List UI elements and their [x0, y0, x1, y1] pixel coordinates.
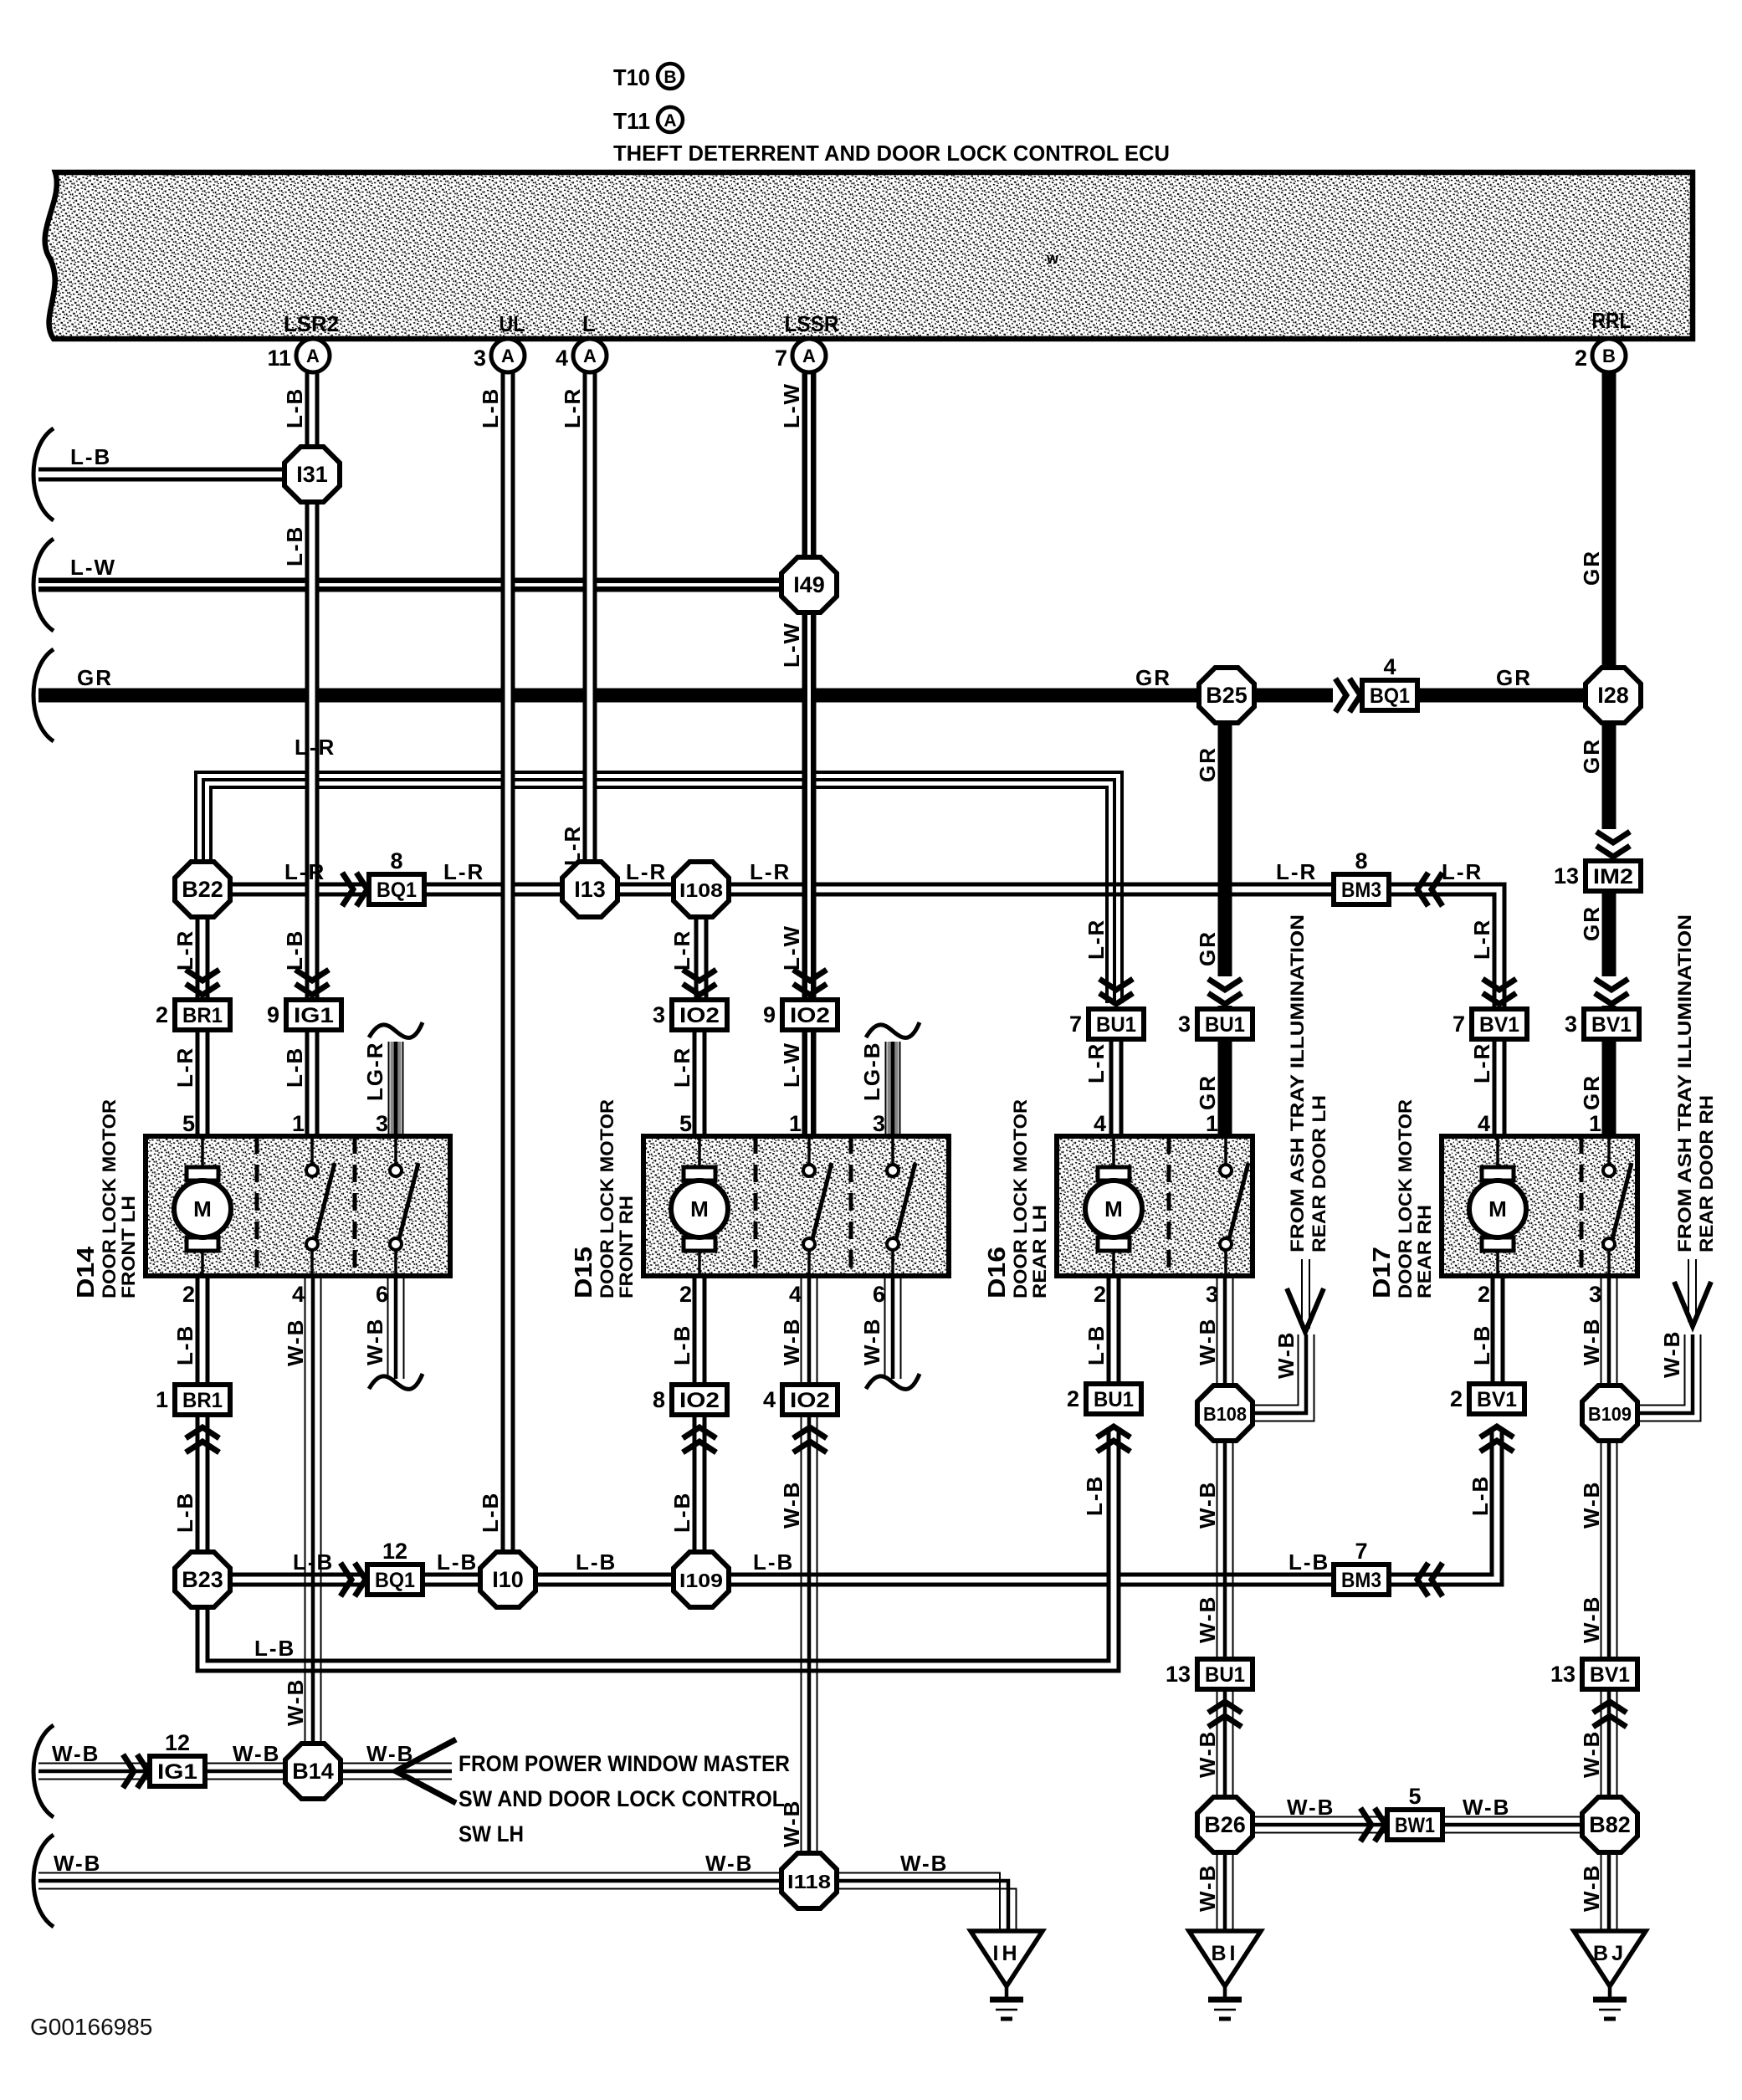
motor D15 [684, 1167, 715, 1181]
component D14 DOOR LOCK MOTOR FRONT LH [146, 1136, 450, 1276]
ground BJ [1574, 1931, 1646, 1986]
wire L-R B22 to BR1 [196, 916, 210, 1001]
svg-text:BV1: BV1 [1479, 1013, 1519, 1037]
splice I109 [674, 1552, 729, 1607]
svg-text:2: 2 [182, 1282, 195, 1307]
svg-text:BQ1: BQ1 [375, 1569, 415, 1592]
svg-text:LSSR: LSSR [785, 311, 839, 336]
svg-text:BQ1: BQ1 [377, 878, 417, 902]
connector IO2 pin3 [672, 1000, 727, 1030]
svg-text:B108: B108 [1203, 1403, 1247, 1425]
switch D15 sw1 [803, 1165, 815, 1176]
svg-text:2: 2 [679, 1282, 692, 1307]
arrow down [186, 970, 219, 981]
splice I108 [674, 862, 729, 917]
svg-text:9: 9 [267, 1002, 279, 1027]
svg-text:IG1: IG1 [157, 1760, 197, 1784]
splice B109 [1582, 1385, 1637, 1441]
svg-text:T10: T10 [613, 64, 650, 90]
connector IO2 pin9 [782, 1000, 838, 1030]
svg-text:LG-B: LG-B [859, 1041, 884, 1101]
wire GR B25 to BU1 [1218, 722, 1232, 1010]
svg-text:GR: GR [1195, 930, 1220, 966]
svg-text:B109: B109 [1588, 1403, 1632, 1425]
arrow down [683, 970, 716, 981]
svg-text:2: 2 [156, 1002, 168, 1027]
svg-text:W-B: W-B [1195, 1864, 1220, 1912]
svg-text:L-B: L-B [1082, 1475, 1107, 1516]
svg-text:A: A [501, 346, 515, 366]
svg-text:A: A [583, 346, 597, 366]
wire W-B B108 to ash tray merge [1253, 1334, 1314, 1421]
svg-text:GR: GR [1195, 746, 1220, 782]
wire W-B I118 to IH ground [837, 1873, 1017, 1930]
wire L-B loop B23 to BU1 [202, 1427, 1114, 1666]
svg-text:G00166985: G00166985 [30, 2014, 152, 2040]
svg-text:BW1: BW1 [1395, 1814, 1435, 1837]
svg-text:L-R: L-R [172, 930, 197, 971]
svg-text:B14: B14 [292, 1759, 334, 1784]
connector BU1 pin7 [1089, 1009, 1144, 1039]
svg-text:L-B: L-B [437, 1549, 478, 1575]
wire break squiggle [369, 1374, 423, 1389]
splice B22 [175, 862, 230, 917]
connector break arc [33, 539, 54, 631]
svg-text:BR1: BR1 [182, 1389, 223, 1412]
wire L-R BV1 to D17 pin4 [1493, 1038, 1507, 1136]
wire L-R row B22-BQ1-I13-I108-BM3 to BV1 [230, 889, 1499, 1009]
svg-text:I13: I13 [574, 877, 606, 902]
svg-text:L-B: L-B [1468, 1475, 1493, 1516]
svg-text:L-R: L-R [669, 930, 694, 971]
svg-text:W-B: W-B [779, 1481, 804, 1529]
ground BI [1189, 1931, 1261, 1986]
arrow right [341, 1563, 351, 1596]
wire W-B IO2 to I118 [801, 1414, 802, 1854]
wire L-B D17 pin2 to BV1 [1491, 1276, 1505, 1385]
svg-text:B22: B22 [182, 877, 223, 902]
svg-text:7: 7 [1069, 1012, 1082, 1037]
svg-text:3: 3 [1206, 1282, 1218, 1307]
wire L-B D14 pin2 to BR1 [196, 1276, 210, 1385]
connector BW1 pin5 [1387, 1810, 1442, 1840]
wire W-B B82 to BJ ground [1601, 1852, 1602, 1930]
svg-text:LSR2: LSR2 [284, 311, 339, 336]
wire W-B D17 pin3 to B109 [1601, 1276, 1602, 1386]
svg-text:IO2: IO2 [790, 1004, 830, 1027]
svg-text:1: 1 [292, 1111, 305, 1136]
svg-text:1: 1 [156, 1387, 168, 1412]
wire L-R IO2 to D15 pin5 [693, 1029, 707, 1136]
connector BU1 pin3 [1197, 1009, 1253, 1039]
svg-text:IO2: IO2 [679, 1004, 720, 1027]
arrow up [683, 1427, 716, 1438]
wire L-B IG1 to D14 pin1 [305, 1029, 320, 1136]
connector BV1 pin13 [1582, 1659, 1637, 1689]
svg-text:GR: GR [1579, 550, 1604, 586]
arrow down [1483, 979, 1516, 990]
arrow up [793, 1427, 827, 1438]
svg-text:IG1: IG1 [294, 1004, 334, 1027]
svg-text:REAR LH: REAR LH [1029, 1205, 1050, 1298]
svg-text:W-B: W-B [366, 1741, 414, 1766]
wire L-B D15 pin2 to IO2 [693, 1276, 707, 1385]
wire W-B BV1-13 to B82 [1601, 1688, 1602, 1798]
arrow left [1417, 873, 1428, 906]
component D17 DOOR LOCK MOTOR REAR RH [1442, 1136, 1637, 1276]
arrow up [1208, 1702, 1242, 1713]
splice B25 [1199, 668, 1254, 723]
svg-text:FRONT RH: FRONT RH [616, 1196, 637, 1298]
svg-text:L-W: L-W [779, 622, 804, 668]
switch D14 sw2 [390, 1165, 402, 1176]
svg-text:FROM ASH TRAY ILLUMINATION: FROM ASH TRAY ILLUMINATION [1287, 914, 1308, 1252]
wire GR pin2B RRL to I28 [1602, 372, 1616, 668]
svg-text:BV1: BV1 [1477, 1388, 1517, 1411]
wire W-B B14 to merge [341, 1763, 452, 1765]
svg-text:W-B: W-B [283, 1319, 308, 1366]
svg-text:M: M [1104, 1196, 1123, 1222]
switch D16 sw [1220, 1165, 1232, 1176]
svg-text:8: 8 [653, 1387, 665, 1412]
svg-text:A: A [663, 111, 676, 131]
connector break arc [33, 1725, 54, 1817]
wire GR I28 to IM2 [1602, 722, 1616, 863]
svg-text:L-R: L-R [1442, 859, 1483, 884]
svg-text:L-B: L-B [282, 1047, 307, 1088]
connector BQ1 pin4 [1362, 680, 1417, 710]
pin 4 A [573, 339, 607, 372]
component D15 DOOR LOCK MOTOR FRONT RH [643, 1136, 949, 1276]
svg-text:I109: I109 [679, 1570, 723, 1591]
svg-text:B82: B82 [1589, 1812, 1631, 1837]
svg-text:1: 1 [789, 1111, 802, 1136]
arrow up [1097, 1426, 1130, 1437]
svg-text:UL: UL [500, 311, 525, 336]
svg-text:12: 12 [165, 1730, 190, 1755]
svg-text:5: 5 [679, 1111, 692, 1136]
svg-text:4: 4 [1383, 654, 1396, 679]
svg-text:L-B: L-B [669, 1324, 694, 1365]
svg-text:W-B: W-B [283, 1678, 308, 1726]
svg-text:8: 8 [390, 848, 402, 873]
svg-text:3: 3 [376, 1111, 388, 1136]
svg-text:L-R: L-R [750, 859, 791, 884]
arrow up [186, 1427, 219, 1438]
svg-text:GR: GR [1579, 738, 1604, 774]
wire L-B BR1 to B23 [196, 1414, 210, 1553]
svg-text:SW AND DOOR LOCK CONTROL: SW AND DOOR LOCK CONTROL [459, 1786, 785, 1811]
wire break squiggle [866, 1374, 920, 1389]
svg-text:L-B: L-B [254, 1636, 295, 1661]
wire LG-R to D14 pin3 [388, 1042, 404, 1136]
svg-text:THEFT DETERRENT AND DOOR LOCK: THEFT DETERRENT AND DOOR LOCK CONTROL EC… [613, 141, 1170, 166]
svg-text:L-W: L-W [779, 382, 804, 428]
splice B26 [1197, 1797, 1253, 1852]
svg-text:L-R: L-R [560, 387, 585, 428]
svg-text:L-R: L-R [284, 859, 325, 884]
svg-text:W-B: W-B [1195, 1481, 1220, 1529]
svg-text:D14: D14 [73, 1247, 100, 1298]
svg-text:4: 4 [789, 1282, 802, 1307]
svg-text:2: 2 [1067, 1386, 1079, 1411]
connector IO2 pin8 [672, 1385, 727, 1415]
svg-text:BM3: BM3 [1341, 878, 1381, 902]
svg-text:W-B: W-B [705, 1851, 753, 1876]
svg-text:W-B: W-B [1659, 1330, 1684, 1378]
connector BV1 pin3 [1584, 1009, 1639, 1039]
svg-text:W-B: W-B [1195, 1730, 1220, 1778]
wire GR IM2 to BV1 [1602, 889, 1616, 1010]
svg-text:4: 4 [1478, 1111, 1490, 1136]
svg-text:GR: GR [1135, 665, 1171, 690]
svg-text:GR: GR [1496, 665, 1532, 690]
wire L-R BR1 to D14 pin5 [196, 1029, 210, 1136]
svg-text:I10: I10 [492, 1567, 524, 1592]
svg-text:L-R: L-R [1469, 1042, 1494, 1083]
svg-text:IO2: IO2 [790, 1389, 830, 1412]
wire L-R bus B22 to D16 pin4 (triple line) [196, 772, 1122, 1003]
arrow right [342, 873, 353, 906]
svg-text:W-B: W-B [1579, 1595, 1604, 1643]
splice I28 [1586, 668, 1641, 723]
wire break squiggle [369, 1022, 423, 1037]
svg-text:REAR DOOR RH: REAR DOOR RH [1696, 1095, 1717, 1252]
svg-text:3: 3 [1178, 1012, 1191, 1037]
svg-text:L-B: L-B [1084, 1324, 1109, 1365]
svg-text:REAR DOOR LH: REAR DOOR LH [1309, 1095, 1330, 1252]
wire W-B B108 to BU1-13 [1217, 1440, 1218, 1660]
svg-text:6: 6 [873, 1282, 885, 1307]
svg-text:BU1: BU1 [1094, 1388, 1134, 1411]
svg-text:9: 9 [763, 1002, 776, 1027]
svg-text:L-R: L-R [443, 859, 484, 884]
svg-text:8: 8 [1355, 848, 1367, 873]
svg-text:GR: GR [77, 665, 113, 690]
splice B108 [1197, 1385, 1253, 1441]
svg-text:W-B: W-B [233, 1741, 280, 1766]
arrow up [1593, 1702, 1627, 1713]
svg-text:L-R: L-R [669, 1047, 694, 1088]
wire L-R BU1 to D16 pin4 [1109, 1038, 1124, 1136]
svg-text:RRL: RRL [1592, 308, 1632, 333]
svg-text:IH: IH [993, 1942, 1021, 1965]
arrow right [1360, 1808, 1371, 1841]
svg-text:13: 13 [1166, 1662, 1191, 1687]
svg-text:FRONT LH: FRONT LH [118, 1196, 139, 1298]
wire L-B row B23-BQ1-I10-I109-BM3 to BV1 [230, 1427, 1497, 1580]
svg-text:3: 3 [1589, 1282, 1601, 1307]
arrow right [123, 1754, 134, 1788]
wire W-B B26 to BI ground [1217, 1852, 1218, 1930]
pin 7 A [792, 339, 826, 372]
svg-text:I118: I118 [787, 1871, 831, 1893]
connector IG1 pin9 [286, 1000, 341, 1030]
connector BM3 pin8 [1334, 874, 1389, 904]
wire LG-B to D15 pin3 [885, 1042, 901, 1136]
svg-text:W-B: W-B [1195, 1595, 1220, 1643]
svg-text:2: 2 [1094, 1282, 1106, 1307]
svg-text:L-R: L-R [1276, 859, 1317, 884]
svg-text:A: A [306, 346, 320, 366]
svg-text:IO2: IO2 [679, 1389, 720, 1412]
svg-text:L-B: L-B [478, 387, 503, 428]
svg-text:W-B: W-B [1579, 1864, 1604, 1912]
connector IO2 pin4 [782, 1385, 838, 1415]
svg-text:w: w [1046, 250, 1059, 267]
svg-text:BM3: BM3 [1341, 1569, 1381, 1592]
splice I13 [562, 862, 617, 917]
connector BU1 pin2 [1086, 1384, 1141, 1414]
svg-text:7: 7 [775, 346, 787, 371]
svg-text:W-B: W-B [54, 1851, 101, 1876]
wire L-B pin3A UL to I10 [501, 372, 515, 1553]
svg-text:L-R: L-R [626, 859, 667, 884]
svg-text:GR: GR [1579, 905, 1604, 941]
svg-text:IM2: IM2 [1593, 865, 1633, 889]
svg-text:W-B: W-B [1195, 1318, 1220, 1365]
svg-text:B26: B26 [1204, 1812, 1246, 1837]
svg-text:13: 13 [1554, 863, 1579, 889]
svg-text:BV1: BV1 [1591, 1013, 1632, 1037]
svg-text:D17: D17 [1369, 1247, 1396, 1298]
svg-text:W-B: W-B [779, 1318, 804, 1365]
connector break arc [33, 649, 54, 741]
svg-text:A: A [802, 346, 816, 366]
svg-text:W-B: W-B [1579, 1318, 1604, 1365]
svg-text:L-B: L-B [70, 444, 111, 469]
wire L-W to I49 [38, 578, 781, 592]
svg-text:W-B: W-B [859, 1318, 884, 1365]
svg-text:2: 2 [1575, 346, 1587, 371]
wire W-B B109 to BV1-13 [1601, 1440, 1602, 1660]
wire L-R pin4A L to I13 [583, 372, 597, 863]
svg-text:12: 12 [382, 1539, 407, 1564]
arrow down [1595, 829, 1632, 858]
motor D17 [1482, 1167, 1514, 1181]
wire L-W pin7A LSSR through I49 to IO2 [802, 372, 817, 1001]
svg-text:L-R: L-R [560, 825, 585, 866]
svg-text:W-B: W-B [362, 1318, 387, 1365]
svg-text:L-B: L-B [576, 1549, 617, 1575]
svg-text:DOOR LOCK MOTOR: DOOR LOCK MOTOR [1395, 1099, 1416, 1298]
svg-text:4: 4 [556, 346, 568, 371]
svg-text:I108: I108 [679, 879, 723, 901]
svg-text:I28: I28 [1597, 683, 1629, 708]
wire W-B B109 to ash tray merge [1637, 1334, 1701, 1421]
wire L-B D16 pin2 to BU1 [1107, 1276, 1121, 1385]
svg-text:GR: GR [1195, 1074, 1220, 1110]
svg-text:L-B: L-B [753, 1549, 794, 1575]
svg-text:W-B: W-B [1579, 1730, 1604, 1778]
connector BV1 pin2 [1469, 1384, 1524, 1414]
svg-text:GR: GR [1579, 1074, 1604, 1110]
svg-text:3: 3 [653, 1002, 665, 1027]
splice I49 [781, 557, 837, 612]
connector break arc [33, 1835, 54, 1927]
wire L-R I108 to IO2 [694, 916, 709, 1001]
svg-text:L-R: L-R [295, 735, 336, 760]
svg-text:B25: B25 [1206, 683, 1248, 708]
merge arrow ash tray RH [1674, 1282, 1711, 1326]
wire W-B D16 pin3 to B108 [1217, 1276, 1218, 1386]
wire W-B BW1 to B82 [1442, 1816, 1582, 1818]
ECU block: THEFT DETERRENT AND DOOR LOCK CONTROL ECU [45, 172, 1693, 339]
wire W-B D15 pin4 to IO2 [801, 1276, 802, 1385]
component D16 DOOR LOCK MOTOR REAR LH [1057, 1136, 1253, 1276]
svg-text:FROM ASH TRAY ILLUMINATION: FROM ASH TRAY ILLUMINATION [1674, 914, 1695, 1252]
svg-text:L-R: L-R [1469, 919, 1494, 960]
switch D14 sw1 [306, 1165, 318, 1176]
arrow down [1593, 976, 1630, 1006]
wire W-B ash tray LH stub [1302, 1259, 1309, 1329]
svg-text:L: L [582, 311, 596, 336]
connector BM3 pin7 [1334, 1565, 1389, 1595]
svg-text:2: 2 [1478, 1282, 1490, 1307]
svg-text:7: 7 [1453, 1012, 1465, 1037]
arrow down [793, 970, 827, 981]
svg-text:I31: I31 [296, 462, 328, 487]
splice I10 [480, 1552, 535, 1607]
arrow down [1207, 976, 1243, 1006]
svg-text:4: 4 [763, 1387, 776, 1412]
svg-text:L-B: L-B [282, 387, 307, 428]
arrow right [1333, 677, 1359, 714]
svg-text:BU1: BU1 [1205, 1663, 1245, 1687]
arrow down [295, 970, 329, 981]
svg-text:L-R: L-R [172, 1047, 197, 1088]
svg-text:1: 1 [1206, 1111, 1218, 1136]
svg-text:D15: D15 [571, 1247, 597, 1298]
wire W-B BU1-13 to B26 [1217, 1688, 1218, 1798]
arrow down [1099, 979, 1133, 990]
wire L-B to I31 [38, 468, 284, 482]
svg-text:L-B: L-B [172, 1492, 197, 1533]
svg-text:6: 6 [376, 1282, 388, 1307]
svg-text:BI: BI [1212, 1942, 1239, 1965]
arrow up [1480, 1426, 1514, 1437]
wire W-B IG1 to B14 [205, 1763, 285, 1765]
svg-text:5: 5 [182, 1111, 195, 1136]
svg-text:L-W: L-W [70, 555, 116, 580]
svg-text:L-W: L-W [779, 1042, 804, 1088]
svg-text:L-B: L-B [478, 1492, 503, 1533]
ground IH [971, 1931, 1043, 1986]
svg-text:4: 4 [1094, 1111, 1106, 1136]
svg-text:BQ1: BQ1 [1370, 684, 1410, 708]
svg-text:W-B: W-B [1463, 1795, 1510, 1820]
svg-text:L-R: L-R [1084, 919, 1109, 960]
wire W-B D14 pin6 stub [387, 1276, 389, 1379]
splice I118 [781, 1853, 837, 1908]
wire break squiggle [866, 1022, 920, 1037]
merge arrow from power window master sw [396, 1739, 456, 1803]
svg-text:4: 4 [292, 1282, 305, 1307]
svg-text:BR1: BR1 [182, 1004, 223, 1027]
svg-text:L-B: L-B [669, 1492, 694, 1533]
switch D17 sw [1603, 1165, 1615, 1176]
connector IG1 pin12 [150, 1756, 205, 1786]
svg-text:SW LH: SW LH [459, 1821, 524, 1846]
svg-text:11: 11 [267, 346, 291, 371]
splice I31 [284, 447, 340, 502]
wire W-B ash tray RH stub [1688, 1259, 1696, 1322]
svg-text:B23: B23 [182, 1567, 223, 1592]
svg-text:M: M [1488, 1196, 1507, 1222]
connector BQ1 pin12 [367, 1565, 423, 1595]
svg-text:L-B: L-B [1289, 1549, 1330, 1575]
svg-text:3: 3 [474, 346, 486, 371]
